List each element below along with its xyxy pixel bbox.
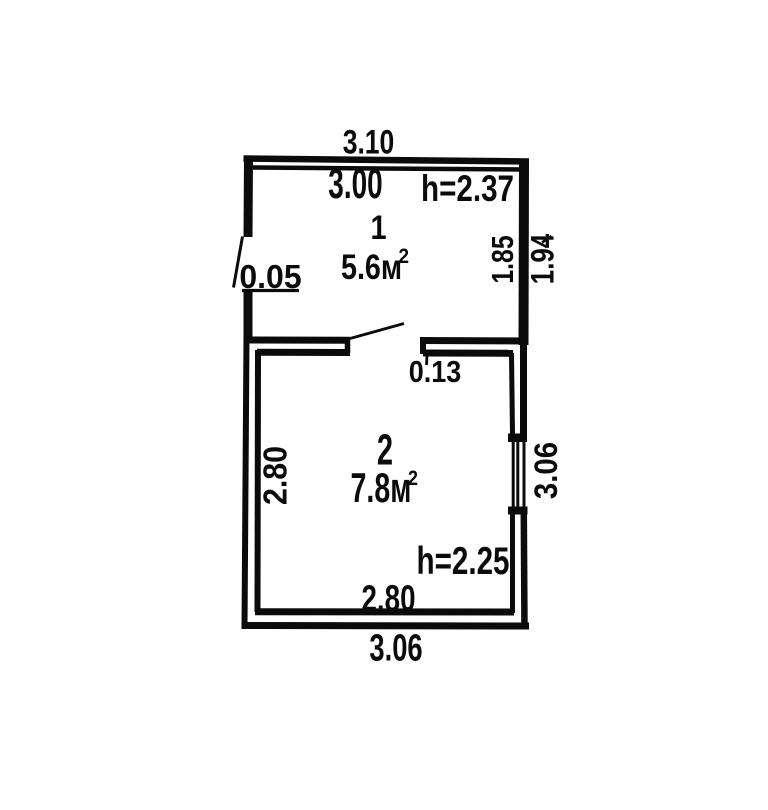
wall bottom outer (room 2) — [242, 622, 530, 630]
svg-text:3.10: 3.10 — [343, 123, 395, 161]
divider bottom line right segment — [423, 350, 513, 357]
wall top inner line (room 1) — [253, 168, 523, 170]
wall bottom inner (room 2) — [255, 608, 514, 615]
svg-text:1.85: 1.85 — [485, 235, 519, 283]
dimension label 1.94 (vertical, outside right) — [526, 233, 561, 284]
svg-text:2.80: 2.80 — [256, 446, 293, 505]
room number 1 — [370, 208, 386, 247]
window W1 glazing line middle — [516, 442, 519, 507]
area label 5.6m2 (room 1) — [341, 245, 409, 287]
wall top outer (room 1) — [244, 159, 530, 162]
svg-text:2: 2 — [399, 245, 410, 268]
wall left outer (room 2) — [245, 337, 247, 628]
dimension label 0.13 (divider door) — [409, 355, 461, 389]
divider right door jamb — [420, 339, 426, 355]
svg-text:h=2.37: h=2.37 — [421, 169, 514, 210]
svg-text:5.6м: 5.6м — [341, 247, 402, 286]
wall right outer lower (room 2, below window) — [521, 514, 528, 630]
svg-text:3.00: 3.00 — [328, 159, 382, 208]
svg-text:2: 2 — [408, 467, 418, 491]
divider wall top line left segment — [246, 337, 350, 344]
dimension label 1.85 (vertical, room 1 inside) — [485, 235, 519, 283]
wall right outer upper (room 2, above window) — [520, 341, 527, 436]
height label h=2.37 (room 1) — [421, 169, 514, 210]
divider bottom line left segment — [257, 349, 350, 356]
door leaf D2 (divider opening) — [350, 324, 404, 339]
height label h=2.25 (room 2) — [416, 540, 509, 583]
wall right (room 1) — [519, 160, 530, 345]
window W1 glazing line outer — [523, 442, 526, 507]
wall left stub (room 1, below door) — [244, 292, 253, 340]
dimension underline 0.05 — [242, 289, 299, 292]
wall left upper (room 1, above door) — [244, 156, 254, 237]
window W1 top cap — [508, 434, 527, 443]
divider wall top line right segment — [420, 337, 527, 345]
svg-text:7.8м: 7.8м — [351, 463, 412, 511]
dimension label 2.80 (room 2 bottom inside) — [362, 577, 416, 619]
dimension arrow above 1.94 — [542, 236, 552, 243]
wall right inner lower (room 2, below window) — [510, 514, 515, 613]
dimension label 3.06 (bottom outside) — [369, 627, 422, 669]
dimension label 0.05 (door width, room 1) — [239, 259, 301, 296]
wall left inner (room 2) — [255, 350, 262, 612]
svg-text:1: 1 — [370, 208, 386, 247]
door leaf D1 (room 1 left wall) — [234, 237, 243, 288]
dimension label 2.80 (vertical, room 2 left) — [256, 446, 293, 505]
svg-text:0.13: 0.13 — [409, 355, 461, 389]
wall right inner upper (room 2, above window) — [512, 353, 513, 435]
divider left door jamb — [345, 338, 351, 353]
svg-text:3.06: 3.06 — [528, 442, 564, 499]
dimension tick 0.13 — [425, 355, 428, 365]
window W1 bottom cap — [508, 507, 528, 515]
svg-text:h=2.25: h=2.25 — [416, 540, 509, 583]
window W1 glazing line inner — [512, 442, 515, 507]
room number 2 — [377, 424, 393, 474]
dimension label 3.10 (top outside) — [343, 123, 395, 161]
svg-text:2.80: 2.80 — [362, 577, 416, 619]
dimension label 3.00 (room 1 top inside) — [328, 159, 382, 208]
dimension label 3.06 (vertical, outside right) — [528, 442, 564, 499]
area label 7.8m2 (room 2) — [351, 463, 419, 511]
svg-text:3.06: 3.06 — [369, 627, 422, 669]
svg-text:0.05: 0.05 — [239, 259, 301, 296]
